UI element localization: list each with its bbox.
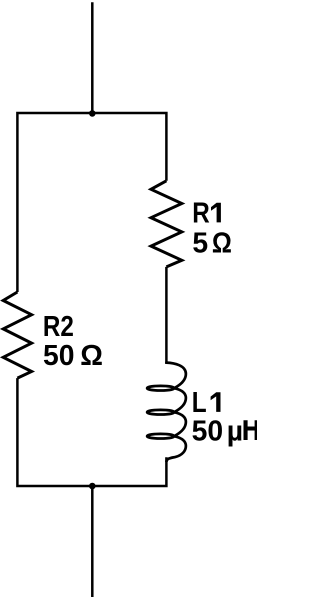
svg-text:µ: µ — [227, 414, 243, 446]
svg-text:5: 5 — [192, 227, 208, 259]
svg-text:Ω: Ω — [212, 227, 232, 259]
svg-text:Ω: Ω — [80, 339, 103, 371]
svg-text:R2: R2 — [43, 310, 74, 342]
svg-text:R: R — [192, 196, 210, 228]
svg-text:50: 50 — [43, 339, 74, 371]
svg-text:50: 50 — [192, 414, 223, 446]
svg-text:L: L — [192, 386, 207, 418]
